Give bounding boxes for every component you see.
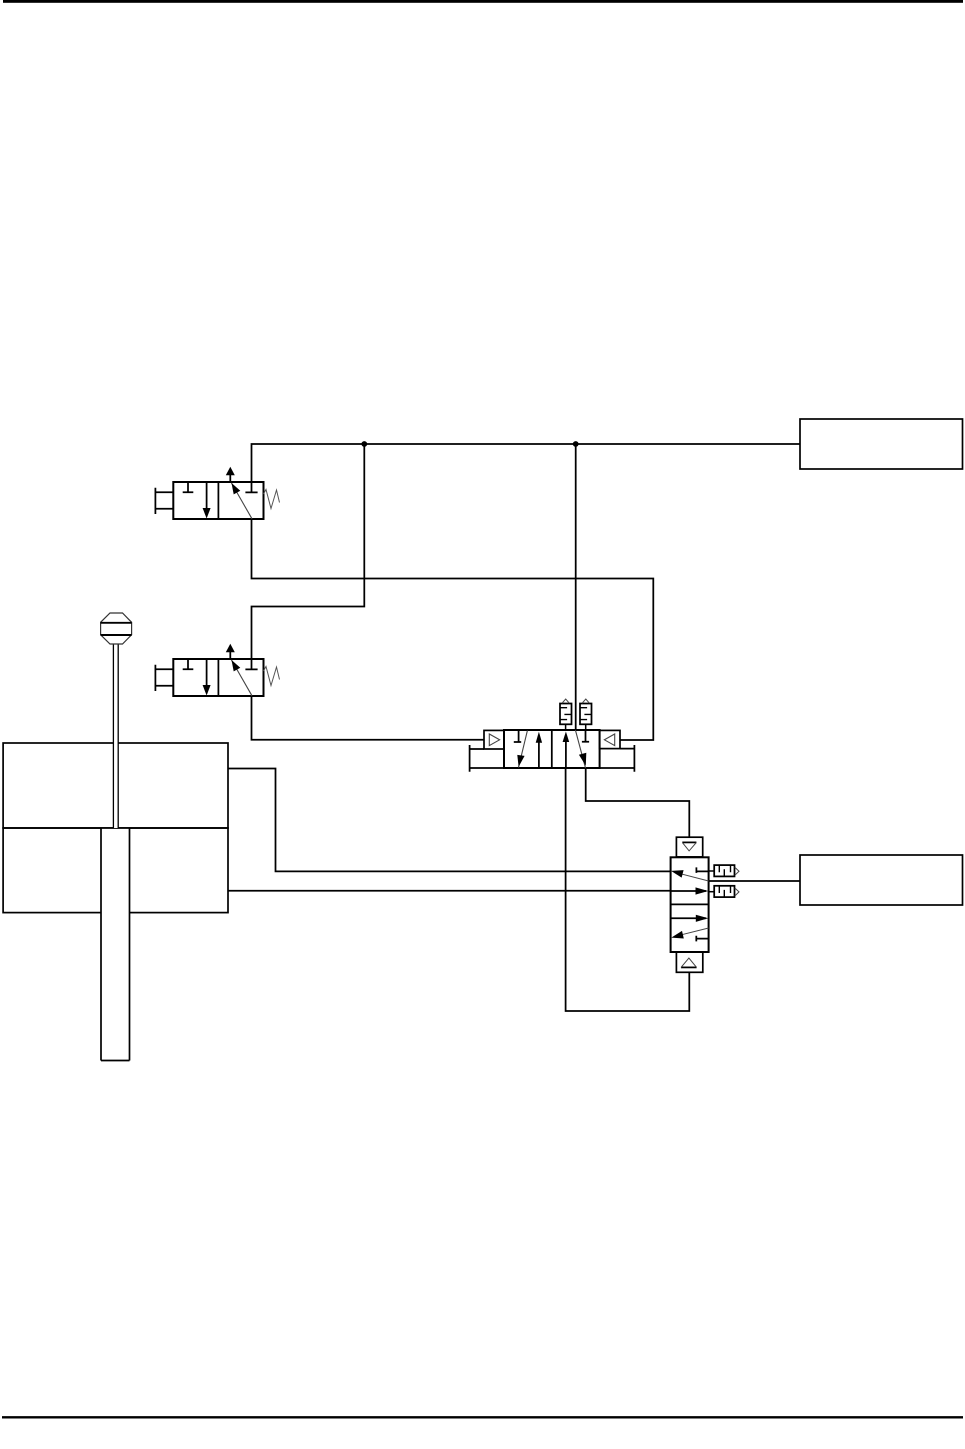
valve V2 solenoid bbox=[155, 665, 173, 691]
valve V1 flow diagonal bbox=[232, 483, 253, 519]
valve V2 down arrow bbox=[206, 659, 208, 686]
valve V2 vent T bbox=[183, 659, 194, 669]
knob handle bbox=[101, 613, 132, 644]
main valve V3 right pilot bbox=[600, 730, 620, 748]
valve V1 body bbox=[173, 482, 263, 519]
valve V2 spring bbox=[264, 667, 280, 686]
wire cylinder cap to interlock valve bbox=[228, 769, 671, 872]
footer rule bbox=[2, 1416, 963, 1418]
main valve V3 left square blocked T bbox=[514, 730, 521, 742]
muffler M1 bbox=[560, 704, 572, 725]
interlock valve V4 top straight arrow bbox=[671, 890, 706, 892]
wire main valve port B to top pilot bbox=[586, 768, 690, 837]
valve V1 solenoid bbox=[155, 488, 173, 514]
main valve V3 left pilot bbox=[484, 730, 504, 749]
interlock valve V4 bottom pilot bbox=[676, 952, 702, 972]
valve V1 spring bbox=[264, 490, 280, 509]
muffler M4 bbox=[714, 886, 734, 897]
interlock valve V4 top pilot bbox=[676, 837, 702, 857]
node junction1 bbox=[361, 441, 367, 447]
piston rod bbox=[101, 829, 130, 1061]
wire valve1 bottom to right pilot bbox=[252, 519, 654, 740]
valve V1 divider bbox=[217, 482, 219, 519]
valve V1 vent T bbox=[183, 482, 194, 492]
interlock valve V4 top diagonal arrow bbox=[675, 872, 709, 881]
valve V2 body bbox=[173, 659, 263, 696]
valve V1 down arrow bbox=[206, 482, 208, 509]
wire cylinder rod side to interlock valve bbox=[228, 890, 671, 892]
main valve V3 right square up arrow bbox=[565, 741, 567, 768]
main valve V3 right square diagonal bbox=[575, 730, 585, 768]
wire valve2 bottom to left pilot bbox=[252, 696, 485, 740]
interlock valve V4 divider bbox=[671, 903, 709, 905]
main valve V3 base plate bbox=[470, 749, 635, 768]
valve V1 exhaust arrow bbox=[229, 475, 231, 483]
main valve V3 divider bbox=[551, 730, 553, 768]
main valve V3 left square diagonal bbox=[519, 731, 528, 768]
valve V2 divider bbox=[217, 659, 219, 696]
box component1 bbox=[800, 419, 963, 469]
interlock valve V4 top blocked T bbox=[696, 867, 708, 873]
valve V2 exhaust arrow bbox=[229, 652, 231, 660]
header bar bbox=[3, 0, 963, 3]
interlock valve V4 bottom diagonal arrow bbox=[675, 928, 708, 936]
valve stem thin rod bbox=[113, 644, 118, 828]
main valve V3 body bbox=[504, 730, 600, 768]
interlock valve V4 bottom straight arrow bbox=[671, 917, 706, 919]
wire main valve port A to bottom pilot bbox=[566, 768, 690, 1011]
wire supply rail bbox=[252, 444, 801, 482]
node junction2 bbox=[573, 441, 579, 447]
interlock valve V4 bottom blocked T bbox=[696, 936, 708, 942]
muffler M2 bbox=[580, 704, 592, 725]
main valve V3 right square blocked T bbox=[582, 730, 589, 742]
main valve V3 left square up arrow bbox=[538, 742, 540, 769]
wire supply down to main valve bbox=[575, 444, 577, 730]
cylinder rod chamber bbox=[3, 828, 228, 913]
box component2 bbox=[800, 855, 963, 905]
wire interlock valve output bbox=[709, 880, 800, 882]
wire valve2 top branch bbox=[252, 444, 365, 659]
valve V2 flow diagonal bbox=[232, 660, 253, 696]
cylinder cap chamber bbox=[3, 743, 228, 828]
interlock valve V4 body bbox=[671, 857, 709, 952]
valve V2 blocked port T bbox=[245, 659, 257, 669]
valve V1 blocked port T bbox=[245, 482, 257, 492]
muffler M3 bbox=[714, 865, 734, 876]
